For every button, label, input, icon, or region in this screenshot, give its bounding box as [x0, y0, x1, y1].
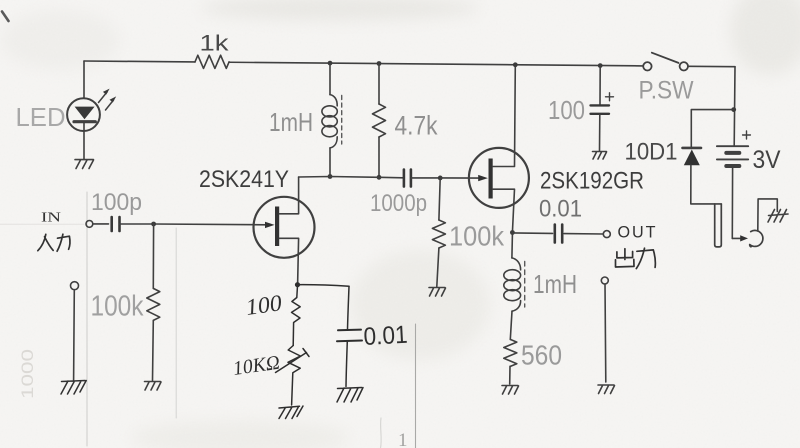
junction dot diode tap [731, 107, 736, 112]
wire Q2 source right [512, 232, 552, 235]
wire choke2 top [511, 235, 514, 258]
switch P.SW lever [652, 53, 679, 63]
terminal OUT ground [601, 277, 608, 284]
ground 100uF [593, 152, 607, 160]
ground OUT [598, 385, 615, 394]
wire 100k2 bottom [437, 248, 439, 287]
ground pot hand [279, 406, 303, 419]
LED light arrow 2 [106, 100, 114, 110]
transistor Q1 2SK241Y body [254, 197, 315, 258]
battery 3V plates [717, 146, 748, 159]
junction dot choke1 top [328, 61, 333, 66]
ground LED [75, 160, 94, 169]
svg-text:1mH: 1mH [533, 269, 577, 299]
capacitor 0.01 hand [337, 330, 362, 342]
earphone plug body [715, 204, 722, 247]
wire 4.7k top [378, 64, 380, 105]
svg-text:100: 100 [548, 95, 585, 125]
junction dot Q2 source [510, 230, 515, 235]
scan ghost line at input [0, 223, 84, 225]
svg-text:0.01: 0.01 [363, 321, 408, 351]
svg-text:IN: IN [41, 210, 61, 225]
wire cap 0.01 to ground hand [346, 341, 347, 386]
wire 4.7k bottom [378, 137, 380, 177]
wire 100uF top [599, 66, 601, 105]
resistor 100k R2 [147, 288, 160, 320]
wire 100k2 drop [439, 178, 440, 220]
scan fold line left [86, 192, 88, 446]
wire top rail left [84, 60, 195, 63]
capacitor 1000p [404, 170, 411, 187]
ground input hand [61, 381, 86, 395]
svg-text:1mH: 1mH [269, 107, 313, 137]
svg-text:100: 100 [244, 290, 284, 320]
resistor 4.7k [373, 104, 386, 137]
svg-text:1000p: 1000p [370, 190, 427, 217]
diode 10D1 cathode bar [683, 147, 702, 150]
wire choke1 bottom [329, 148, 331, 177]
potentiometer 10k hand [288, 346, 300, 406]
Q1 gate bar [275, 207, 279, 247]
wire jack arrow lead [732, 237, 741, 239]
wire diode branch [691, 110, 733, 148]
wire source resistor top hand [296, 286, 299, 298]
scan corner mark [2, 12, 9, 22]
svg-text:100k: 100k [91, 291, 144, 323]
LED light arrow 1 [99, 92, 108, 103]
svg-text:OUT: OUT [618, 224, 658, 242]
junction dot Q1 gate node [151, 222, 156, 227]
ground 100k2 [429, 288, 446, 297]
scan smudge stroke [380, 418, 383, 448]
svg-text:0.01: 0.01 [539, 196, 582, 223]
inductor L2 core dashes [524, 262, 526, 308]
inductor 1mH L2 [512, 258, 521, 270]
svg-text:2SK241Y: 2SK241Y [199, 166, 289, 193]
wire drain rail Q1 [299, 177, 403, 178]
junction dot choke1 bottom [328, 174, 333, 179]
terminal IN [86, 221, 93, 228]
wire 100uF bottom [599, 115, 601, 151]
potentiometer arrow hand [276, 349, 310, 373]
Q1 source lead [279, 238, 298, 284]
wire LED anode [83, 61, 85, 98]
ground 560 [502, 386, 519, 395]
junction dot 4.7k top [377, 61, 382, 66]
wire top rail right of switch [688, 65, 735, 67]
svg-text:3V: 3V [753, 146, 781, 174]
jack arrow head [740, 235, 748, 241]
svg-text:LED: LED [16, 102, 66, 132]
wire cap 0.01 drop hand [348, 286, 350, 329]
ground 100k1 [145, 382, 162, 391]
kanji 力 output [636, 248, 655, 268]
kanji 出 [616, 249, 635, 267]
svg-text:2SK192GR: 2SK192GR [540, 168, 644, 195]
wire cap to OUT terminal [564, 233, 603, 235]
ground earphone [768, 210, 788, 223]
jack curve [750, 230, 763, 246]
capacitor 100uF [591, 105, 610, 113]
wire IN ground terminal [73, 290, 76, 380]
Q1 gate arrow [265, 222, 275, 228]
LED D1 body [67, 98, 100, 131]
scan patch edge line [415, 324, 417, 448]
junction dot Q1 source [295, 282, 300, 287]
wire choke2 to 560 [510, 311, 512, 339]
svg-text:4.7k: 4.7k [395, 111, 438, 141]
scan fold line mid-left [175, 228, 177, 418]
terminal IN ground [71, 282, 79, 290]
wire top rail mid [229, 62, 643, 66]
wire battery drop [733, 67, 736, 146]
wire Q2 gate [440, 177, 479, 179]
wire choke1 top [329, 63, 331, 95]
resistor 1k [195, 55, 229, 68]
wire 100k1 bottom [152, 320, 155, 380]
resistor 560 [504, 339, 517, 366]
junction dot Q2 gate node [438, 176, 443, 181]
wire OUT ground terminal [604, 284, 607, 382]
svg-text:1k: 1k [200, 31, 230, 56]
svg-text:P.SW: P.SW [639, 77, 694, 105]
wire LED cathode [83, 123, 85, 159]
wire 1000p to gate node [411, 177, 440, 179]
resistor 100 hand [292, 298, 301, 346]
junction dot Q2 drain rail [513, 62, 518, 67]
inductor 1mH L1 [330, 95, 337, 106]
capacitor 100p [112, 217, 120, 231]
switch P.SW pole right [680, 62, 688, 70]
plus 100uF [606, 93, 614, 101]
kanji 入 [38, 234, 53, 250]
svg-text:10D1: 10D1 [625, 139, 678, 166]
svg-text:100p: 100p [91, 189, 142, 216]
svg-text:560: 560 [521, 340, 562, 371]
wire Q1 gate [154, 223, 266, 226]
capacitor 0.01 output [555, 225, 562, 243]
junction dot 100uF [598, 63, 603, 68]
wire diode to plug [691, 165, 722, 204]
plus battery [743, 131, 751, 139]
resistor 100k R3 [432, 220, 445, 248]
inductor L1 core dashes [341, 96, 343, 145]
Q2 gate bar [489, 159, 493, 199]
Q1 drain lead [279, 177, 298, 214]
LED triangle [75, 107, 95, 120]
wire 100p to gate node [120, 223, 154, 225]
wire 560 bottom [509, 366, 511, 384]
LED cathode bar [74, 120, 95, 123]
wire IN to cap [93, 223, 109, 225]
junction dot 4.7k bottom [377, 175, 382, 180]
transistor Q2 2SK192GR body [469, 148, 529, 208]
kanji 力 input [57, 234, 70, 251]
wire source node right hand [298, 285, 350, 287]
Q2 gate arrow [478, 175, 488, 181]
svg-text:1: 1 [398, 430, 408, 448]
wire battery minus [731, 168, 733, 238]
Q2 drain lead [493, 65, 515, 167]
Q2 source lead [493, 189, 515, 232]
svg-text:1000: 1000 [18, 349, 37, 399]
wire 100k1 drop [152, 224, 154, 288]
diode 10D1 triangle [684, 150, 700, 166]
switch P.SW pole left [643, 62, 651, 70]
svg-text:100k: 100k [449, 221, 505, 252]
ground 0.01 hand [337, 388, 363, 403]
terminal OUT [603, 231, 610, 238]
wire jack to ground [758, 199, 778, 231]
